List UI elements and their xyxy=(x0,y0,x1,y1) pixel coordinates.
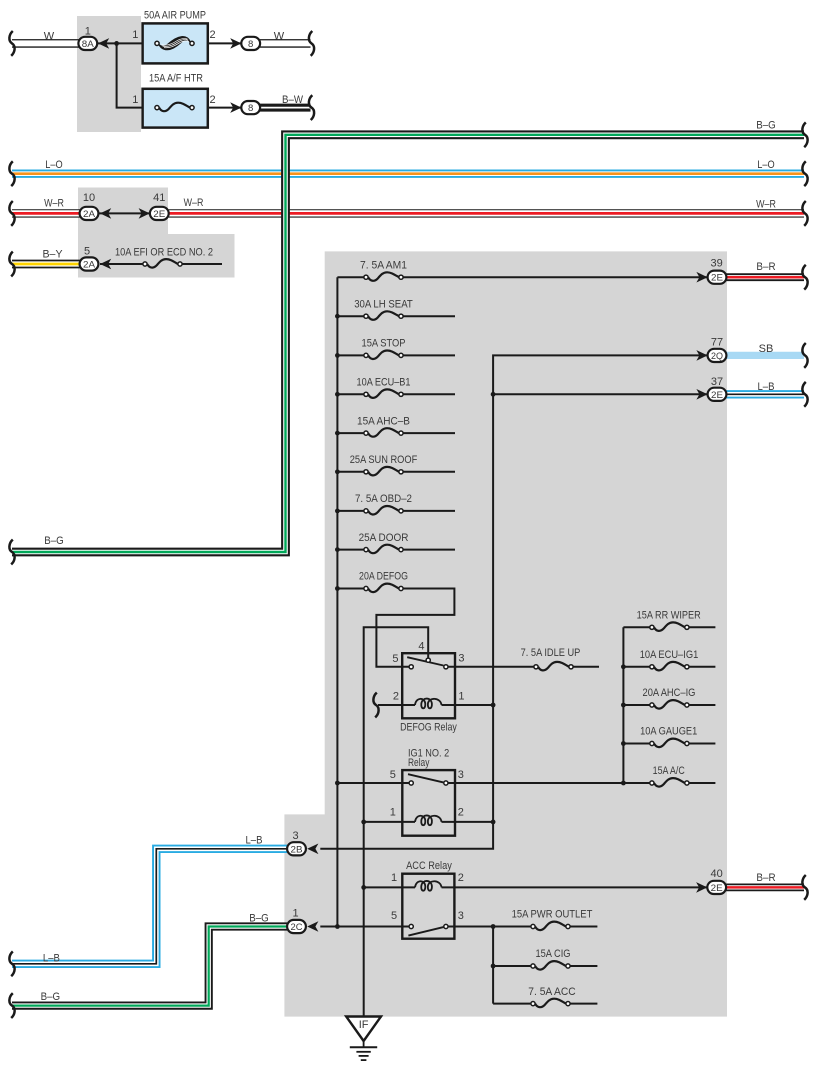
fuse 10A ECU-IG1 xyxy=(650,662,689,671)
relay IG1 switch arm xyxy=(408,774,443,782)
fuse 25A SUN ROOF xyxy=(364,467,403,476)
svg-text:B–G: B–G xyxy=(249,912,269,924)
svg-text:B–G: B–G xyxy=(756,120,776,132)
wire: 2C to ACC pin5 xyxy=(320,926,409,928)
wire: AHC-B row xyxy=(337,432,455,434)
svg-text:2E: 2E xyxy=(153,209,165,220)
wire: DEFOG pin2 to continuation xyxy=(378,704,415,706)
wire: ACC pin1 from ground riser xyxy=(364,886,415,888)
wire W-R (left segment) xyxy=(12,209,80,217)
wire-end curl L-O left xyxy=(9,161,14,186)
svg-text:2A: 2A xyxy=(83,209,96,220)
svg-text:8A: 8A xyxy=(82,39,95,50)
arrow into 2E (40) xyxy=(696,882,707,893)
wire W-R (right segment) xyxy=(169,209,804,217)
fuse 20A AHC-IG xyxy=(650,700,689,709)
junction right spine/GAUGE1 xyxy=(621,741,626,746)
junction riser/DEFOG pin1 xyxy=(491,703,496,708)
wire W (right of connector 8) xyxy=(260,39,311,48)
svg-text:5: 5 xyxy=(390,769,396,781)
svg-text:5: 5 xyxy=(84,246,90,258)
svg-text:W–R: W–R xyxy=(44,198,64,210)
svg-text:7. 5A AM1: 7. 5A AM1 xyxy=(360,259,407,271)
wire: junction drop to A/F HTR xyxy=(117,43,156,107)
svg-text:2: 2 xyxy=(210,29,216,41)
wire: AHC-IG row xyxy=(623,704,715,706)
svg-text:L–B: L–B xyxy=(246,834,263,846)
relay DEFOG pin 5 terminal xyxy=(409,665,413,669)
svg-text:ACC Relay: ACC Relay xyxy=(406,860,452,872)
wire B-G (from 2C 1) xyxy=(12,927,287,1006)
svg-text:2E: 2E xyxy=(711,883,723,894)
wire: LH SEAT row xyxy=(337,315,455,317)
fuse 10A EFI OR ECD NO. 2 xyxy=(143,259,182,268)
svg-text:2B: 2B xyxy=(291,844,303,855)
junction riser/IG1 pin2 xyxy=(491,820,496,825)
wire: net to 2Q(77), down to 2B xyxy=(320,355,708,848)
svg-text:20A AHC–IG: 20A AHC–IG xyxy=(643,687,696,699)
junction riser/2E37 xyxy=(491,392,496,397)
relay IG1 coil xyxy=(415,815,442,825)
arrow into 2A (5) xyxy=(100,259,111,270)
wire-end curl B-R 40 right xyxy=(802,875,807,900)
wire-end curl B-R right xyxy=(802,265,807,290)
wire: DEFOG pin1 to riser xyxy=(442,704,494,706)
relay ACC pin 5 terminal xyxy=(409,924,413,928)
svg-text:L–B: L–B xyxy=(758,381,775,393)
svg-text:15A A/F HTR: 15A A/F HTR xyxy=(149,73,203,85)
wire: STOP row xyxy=(337,354,455,356)
wire-end curl B-Y left xyxy=(9,252,14,277)
junction right spine/AHC-IG xyxy=(621,703,626,708)
fuse 30A LH SEAT xyxy=(364,311,403,320)
wire: IG1 coil right to riser xyxy=(442,821,494,823)
junction spine/OBD-2 xyxy=(335,509,340,514)
svg-text:25A SUN ROOF: 25A SUN ROOF xyxy=(350,454,418,466)
svg-text:15A PWR OUTLET: 15A PWR OUTLET xyxy=(512,909,593,921)
wire: DEFOG row and snake to relay pin 5 xyxy=(337,589,454,667)
svg-text:15A STOP: 15A STOP xyxy=(362,338,406,350)
wire-end curl W left xyxy=(9,31,14,56)
wire-end curl W-R right xyxy=(802,201,807,226)
svg-text:L–O: L–O xyxy=(45,159,63,171)
svg-text:W: W xyxy=(44,30,55,42)
relay DEFOG pin 4 terminal xyxy=(426,658,430,662)
relay ACC pin 3 terminal xyxy=(444,924,448,928)
svg-text:20A DEFOG: 20A DEFOG xyxy=(359,571,408,583)
junction spine/AHC-B xyxy=(335,431,340,436)
connector 2A (10) xyxy=(80,207,99,220)
svg-text:DEFOG Relay: DEFOG Relay xyxy=(400,721,457,733)
wire: DOOR row xyxy=(337,549,455,551)
wire L-B (from 2B 3) xyxy=(12,849,287,964)
svg-text:15A RR WIPER: 15A RR WIPER xyxy=(637,610,701,622)
relay IG1 pin 3 terminal xyxy=(444,781,448,785)
relay DEFOG pin 3 terminal xyxy=(444,665,448,669)
relay DEFOG switch arm xyxy=(407,657,443,665)
svg-text:7. 5A ACC: 7. 5A ACC xyxy=(528,986,575,998)
svg-text:37: 37 xyxy=(711,376,723,388)
svg-text:4: 4 xyxy=(418,640,424,652)
svg-text:2: 2 xyxy=(458,807,464,819)
svg-text:1: 1 xyxy=(132,94,138,106)
fuse 15A STOP xyxy=(364,350,403,359)
connector 2E (39) xyxy=(708,271,727,284)
junction spine/STOP xyxy=(335,353,340,358)
wire: DEFOG pin3 to IDLE UP fuse xyxy=(448,666,534,668)
wire-end curl L-B right xyxy=(802,382,807,407)
connector 2E (37) xyxy=(708,388,727,401)
junction spine/SUN ROOF xyxy=(335,469,340,474)
fuse 50A AIR PUMP element xyxy=(155,37,194,50)
svg-text:2A: 2A xyxy=(83,260,96,271)
junction spine/LH SEAT xyxy=(335,314,340,319)
svg-text:2E: 2E xyxy=(711,273,723,284)
svg-text:2C: 2C xyxy=(291,922,303,933)
arrow into 2E (37) xyxy=(696,389,707,400)
svg-text:10A GAUGE1: 10A GAUGE1 xyxy=(640,726,697,738)
svg-text:5: 5 xyxy=(391,910,397,922)
fuse box 50A AIR PUMP xyxy=(143,23,208,63)
svg-text:3: 3 xyxy=(458,769,464,781)
junction ACC pin3 node xyxy=(491,924,496,929)
wire: 2A(5) to EFI fuse xyxy=(100,263,143,265)
wire-end curl B-G lower-left xyxy=(9,993,14,1018)
wire-end curl L-O right xyxy=(802,161,807,186)
svg-text:B–G: B–G xyxy=(44,535,64,547)
fuse 7.5A AM1 xyxy=(364,272,403,281)
wire: ACC pin2 to 2E(40) xyxy=(442,886,708,888)
svg-text:15A AHC–B: 15A AHC–B xyxy=(357,415,410,427)
wire: GAUGE1 row xyxy=(623,743,715,745)
svg-text:1: 1 xyxy=(391,872,397,884)
wire: right column spine xyxy=(622,627,624,783)
svg-text:50A AIR PUMP: 50A AIR PUMP xyxy=(144,10,206,22)
svg-text:8: 8 xyxy=(248,103,253,114)
svg-text:2E: 2E xyxy=(711,390,723,401)
relay IG1 NO.2 (box) xyxy=(402,770,455,836)
wire: IG1 pin3 to A/C fuse row xyxy=(448,782,650,784)
wire-end curl B-G top right xyxy=(802,122,807,147)
svg-text:1: 1 xyxy=(458,690,464,702)
junction spine/2C row xyxy=(335,924,340,929)
relay IG1 pin 5 terminal xyxy=(409,781,413,785)
svg-text:25A DOOR: 25A DOOR xyxy=(359,532,409,544)
wire: ECU-IG1 row xyxy=(623,666,715,668)
svg-text:Relay: Relay xyxy=(408,757,430,769)
svg-text:40: 40 xyxy=(710,868,722,880)
svg-text:IF: IF xyxy=(359,1019,369,1031)
wire: ECU-B1 row xyxy=(337,393,455,395)
wire: EFI fuse stub xyxy=(182,263,223,265)
svg-text:8: 8 xyxy=(248,39,253,50)
wire B-R (from 2E 39) xyxy=(726,273,804,281)
wire: AM1 row to 2E(39) xyxy=(337,276,707,278)
wire SB (from 2Q 77) xyxy=(726,352,804,359)
wire: PWR OUTLET stub xyxy=(570,926,597,928)
connector 2Q (77) xyxy=(708,349,727,362)
fuse 10A GAUGE1 xyxy=(650,739,689,748)
fuse 25A DOOR xyxy=(364,545,403,554)
junction right spine/A-C xyxy=(621,781,626,786)
wire B-Y xyxy=(12,260,80,269)
connector 2E (40) xyxy=(707,881,726,894)
wire: CIG row xyxy=(493,965,597,967)
arrow into 2A (10) xyxy=(100,208,111,219)
wire L-B (from 2E 37) xyxy=(726,390,804,398)
svg-text:15A CIG: 15A CIG xyxy=(536,948,571,960)
svg-text:1: 1 xyxy=(292,908,298,920)
wire: DEFOG pin4 net to ground xyxy=(364,627,429,1016)
svg-text:41: 41 xyxy=(153,192,165,204)
junction spine/DEFOG xyxy=(335,586,340,591)
relay ACC (box) xyxy=(402,874,454,939)
arrow into connector 8 (B-W) xyxy=(230,102,241,113)
wire B-W xyxy=(260,104,311,112)
svg-text:L–B: L–B xyxy=(43,953,60,965)
junction CIG row xyxy=(491,964,496,969)
svg-text:W–R: W–R xyxy=(756,198,776,210)
connector 2E (41) xyxy=(150,207,169,220)
connector panel (W-R / EFI grey, L-shape) xyxy=(78,188,235,278)
svg-text:10A ECU–B1: 10A ECU–B1 xyxy=(357,377,411,389)
wire B-G (top bus, vertical, mid-left) xyxy=(12,135,804,552)
wire L-O bus xyxy=(12,169,804,177)
svg-text:77: 77 xyxy=(711,337,723,349)
svg-text:39: 39 xyxy=(710,257,722,269)
wire: A/C fuse stub xyxy=(689,782,716,784)
svg-text:7. 5A IDLE UP: 7. 5A IDLE UP xyxy=(521,647,581,659)
svg-text:3: 3 xyxy=(458,653,464,665)
ground IF xyxy=(346,1017,381,1061)
arrow into 2C (1) xyxy=(307,921,318,932)
fuse 7.5A ACC xyxy=(531,999,570,1008)
junction right spine/ECU-IG1 xyxy=(621,664,626,669)
wire: branch to 2E(37) xyxy=(493,393,708,395)
fuse 7.5A OBD-2 xyxy=(364,506,403,515)
wire: 8A to AIR PUMP fuse xyxy=(97,42,157,44)
wire: RR WIPER row xyxy=(623,626,715,628)
svg-text:B–R: B–R xyxy=(756,872,775,884)
svg-text:5: 5 xyxy=(392,653,398,665)
junction spine/ECU-B1 xyxy=(335,392,340,397)
relay ACC switch arm xyxy=(408,927,443,936)
svg-text:W–R: W–R xyxy=(184,197,204,209)
svg-text:B–W: B–W xyxy=(282,94,304,106)
arrow into 2E (39) xyxy=(696,272,707,283)
wire: ACC pin3 branch node xyxy=(448,927,531,1004)
relay ACC coil xyxy=(415,881,442,891)
fuse 15A A/F HTR element xyxy=(155,103,194,112)
svg-text:SB: SB xyxy=(759,343,774,355)
wire: IG1 pin1 from ground riser xyxy=(364,821,415,823)
wire B-R (from 2E 40) xyxy=(726,884,804,892)
svg-text:1: 1 xyxy=(85,26,91,38)
wire: AIR PUMP output xyxy=(193,42,242,44)
svg-text:3: 3 xyxy=(458,910,464,922)
junction at 8A node xyxy=(114,41,119,46)
wire-end curl W-R left xyxy=(9,201,14,226)
junction block panel (top-left grey) xyxy=(77,16,141,132)
svg-text:B–Y: B–Y xyxy=(43,249,64,261)
wire-end curl SB right xyxy=(802,343,807,368)
fuse 10A ECU-B1 xyxy=(364,389,403,398)
connector 2A (5) xyxy=(80,257,99,270)
wire: fuse block left spine xyxy=(336,277,338,926)
svg-text:3: 3 xyxy=(292,830,298,842)
arrow into connector 8 (W) xyxy=(230,38,241,49)
fuse 15A AHC-B xyxy=(364,428,403,437)
junction ground riser/ACC pin1 xyxy=(361,885,366,890)
svg-text:7. 5A OBD–2: 7. 5A OBD–2 xyxy=(355,493,412,505)
svg-text:10A ECU–IG1: 10A ECU–IG1 xyxy=(640,649,699,661)
connector 8A xyxy=(78,37,97,50)
fuse box 15A A/F HTR xyxy=(143,89,208,128)
svg-text:W: W xyxy=(274,30,285,42)
wire W (left of 8A) xyxy=(12,39,79,48)
wire-end curl L-B lower-left xyxy=(9,951,14,976)
svg-text:10A EFI OR ECD NO. 2: 10A EFI OR ECD NO. 2 xyxy=(115,246,213,258)
wire: IDLE UP stub xyxy=(573,666,599,668)
svg-text:2: 2 xyxy=(458,872,464,884)
arrow into 2Q (77) xyxy=(696,350,707,361)
fuse 15A A/C xyxy=(650,778,689,787)
arrow into 8A xyxy=(98,38,109,49)
arrow into 2B (3) xyxy=(307,844,318,855)
svg-text:10: 10 xyxy=(83,192,95,204)
svg-text:30A LH SEAT: 30A LH SEAT xyxy=(354,298,413,310)
wire: A/F HTR output xyxy=(193,107,242,109)
fuse 15A RR WIPER xyxy=(650,622,689,631)
svg-text:B–R: B–R xyxy=(756,261,775,273)
relay DEFOG (box) xyxy=(402,653,455,718)
svg-text:2: 2 xyxy=(210,94,216,106)
fuse 15A PWR OUTLET xyxy=(531,922,570,931)
connector 2B (3) xyxy=(287,842,306,855)
junction spine/IG1 pin5 xyxy=(335,781,340,786)
wire: between 2A(10) and 2E(41) xyxy=(98,212,150,214)
svg-text:1: 1 xyxy=(390,807,396,819)
relay DEFOG coil xyxy=(415,699,442,709)
fuse 20A DEFOG xyxy=(364,584,403,593)
wire-end curl DEFOG pin2 xyxy=(373,693,378,718)
connector 8 (B-W) xyxy=(241,101,260,114)
wire-end curl B-W right xyxy=(309,95,314,120)
wire-end curl W right xyxy=(309,31,314,56)
fuse 15A CIG xyxy=(531,961,570,970)
wire: SUN ROOF row xyxy=(337,471,455,473)
svg-text:L–O: L–O xyxy=(757,159,775,171)
svg-text:2: 2 xyxy=(393,690,399,702)
svg-text:1: 1 xyxy=(132,29,138,41)
wire: OBD-2 row xyxy=(337,510,455,512)
wire-end curl B-G mid-left xyxy=(9,540,14,565)
svg-text:2Q: 2Q xyxy=(711,351,723,362)
svg-text:15A A/C: 15A A/C xyxy=(653,765,685,777)
fuse 7.5A IDLE UP xyxy=(534,662,573,671)
arrow into 2E (41) xyxy=(139,208,150,219)
junction spine/DOOR xyxy=(335,547,340,552)
connector 2C (1) xyxy=(287,920,306,933)
wire: ACC fuse row xyxy=(493,1003,597,1005)
wire: IG1 pin5 from spine xyxy=(337,782,409,784)
fuse block panel (main grey) xyxy=(284,251,727,1016)
connector 8 (W) xyxy=(241,37,260,50)
svg-text:B–G: B–G xyxy=(41,991,61,1003)
junction ground riser/IG1 pin1 xyxy=(361,820,366,825)
